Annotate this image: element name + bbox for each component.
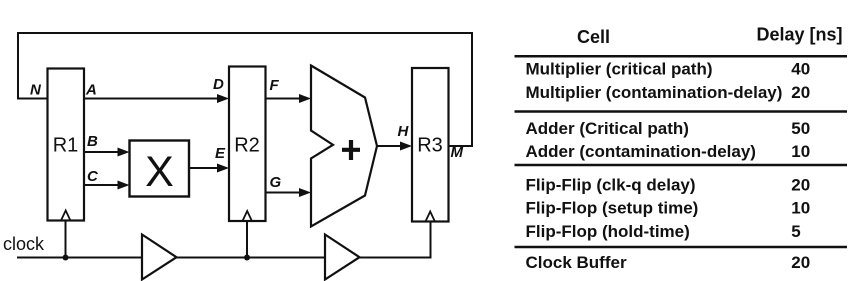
svg-text:10: 10 <box>791 142 810 161</box>
register R3 <box>412 68 449 222</box>
svg-text:G: G <box>270 174 282 191</box>
wire G (R2 to adder bottom input) <box>266 188 312 197</box>
svg-text:N: N <box>30 82 42 99</box>
node label D <box>213 76 224 93</box>
svg-text:Cell: Cell <box>577 27 610 47</box>
table: cell delays <box>515 25 848 273</box>
svg-text:Multiplier (contamination-dela: Multiplier (contamination-delay) <box>526 83 783 102</box>
wire E (multiplier to R2) <box>189 164 229 173</box>
wire A (R1 to R2 D input) <box>84 94 229 103</box>
node label A <box>85 82 97 99</box>
node label M <box>451 144 464 161</box>
svg-text:C: C <box>87 168 99 185</box>
svg-text:R2: R2 <box>234 135 260 157</box>
wire C (R1 to multiplier) <box>84 181 130 190</box>
clock label <box>3 234 45 254</box>
register R2 <box>229 67 266 222</box>
clock buffer 2 <box>325 235 360 280</box>
clock pin of R1 <box>61 211 70 221</box>
svg-text:20: 20 <box>791 253 810 272</box>
wire M (R3 output feedback, right side) <box>449 33 473 146</box>
clock pin of R2 <box>243 211 252 221</box>
wire H (adder to R3) <box>377 142 412 151</box>
node label G <box>270 174 282 191</box>
svg-text:20: 20 <box>791 83 810 102</box>
svg-text:5: 5 <box>791 222 800 241</box>
svg-text:X: X <box>145 148 174 196</box>
svg-text:Flip-Flip (clk-q delay): Flip-Flip (clk-q delay) <box>526 176 696 195</box>
wire feedback top run <box>18 32 473 34</box>
svg-text:10: 10 <box>791 199 810 218</box>
svg-text:40: 40 <box>791 60 810 79</box>
wire buffer1 output <box>177 257 326 259</box>
register R1 <box>48 69 85 221</box>
wire F (R2 to adder top input) <box>266 94 312 103</box>
svg-text:B: B <box>87 133 98 150</box>
svg-text:Flip-Flop (setup time): Flip-Flop (setup time) <box>526 199 699 218</box>
wire clock root <box>17 257 142 259</box>
node label F <box>270 77 280 94</box>
svg-text:M: M <box>451 144 464 161</box>
wire N (feedback down into R1) <box>18 32 48 99</box>
junction clock to R2 <box>244 255 250 261</box>
svg-text:Multiplier (critical path): Multiplier (critical path) <box>526 60 713 79</box>
svg-text:Flip-Flop (hold-time): Flip-Flop (hold-time) <box>526 222 690 241</box>
junction clock to R1 <box>63 255 69 261</box>
svg-text:H: H <box>398 123 410 140</box>
svg-text:clock: clock <box>3 234 45 254</box>
svg-text:Adder (Critical path): Adder (Critical path) <box>526 119 689 138</box>
svg-text:Clock Buffer: Clock Buffer <box>526 253 627 272</box>
svg-text:Delay [ns]: Delay [ns] <box>757 25 843 45</box>
svg-text:D: D <box>213 76 224 93</box>
node label H <box>398 123 410 140</box>
node label B <box>87 133 98 150</box>
svg-text:R1: R1 <box>53 135 79 157</box>
svg-text:R3: R3 <box>417 135 443 157</box>
svg-text:50: 50 <box>791 119 810 138</box>
wire clock to R1 pin <box>65 221 67 258</box>
svg-text:F: F <box>270 77 280 94</box>
adder U1 <box>311 66 377 227</box>
node label N <box>30 82 42 99</box>
wire clock to R2 pin <box>246 221 248 258</box>
wire buffer2 output to R3 pin <box>360 222 431 258</box>
clock buffer 1 <box>142 235 177 280</box>
node label E <box>215 145 226 162</box>
wire B (R1 to multiplier) <box>84 148 130 157</box>
svg-text:Adder (contamination-delay): Adder (contamination-delay) <box>526 142 756 161</box>
svg-text:E: E <box>215 145 226 162</box>
clock pin of R3 <box>426 212 435 222</box>
multiplier X <box>130 141 190 197</box>
svg-text:20: 20 <box>791 176 810 195</box>
svg-text:A: A <box>85 82 97 99</box>
node label C <box>87 168 99 185</box>
